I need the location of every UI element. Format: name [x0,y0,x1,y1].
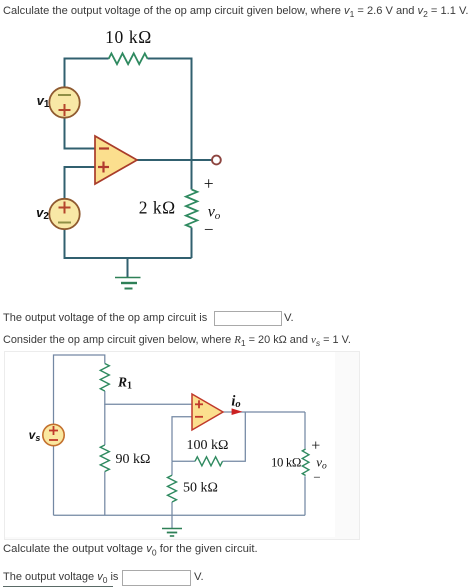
wire: 100k right to output vertical [223,412,246,461]
wire: c2 top rail [54,355,105,424]
wire: 90k top lead [104,404,106,445]
wire: v2 top to op-amp non-inverting input [65,167,96,199]
svg-text:90 kΩ: 90 kΩ [116,452,151,467]
svg-text:10 kΩ: 10 kΩ [105,27,152,47]
wire: node to 100k left [172,460,195,462]
answer input box 2 [122,570,191,586]
underline artifact under bottom text [3,586,113,587]
resistor 50 kOhm [168,475,177,502]
output terminal node [212,156,221,165]
wire: c1 top-right from 10k right, down right side to 2k top [148,59,192,190]
answer text line 1 [3,312,207,324]
wire: c1 top-left from v1 top to 10k left [65,59,109,88]
svg-text:100 kΩ: 100 kΩ [187,438,229,453]
wire: 10k bottom lead [304,476,306,515]
circuit 2 panel [4,351,360,540]
resistor 2 kOhm (load) [186,190,197,228]
problem text line 1 [3,5,468,17]
source v2 [49,199,79,229]
svg-text:−: − [313,470,320,485]
svg-text:+: + [204,173,214,193]
current arrow io [232,408,243,415]
wire: ground stem c1 [127,258,129,277]
wire: bottom rail [54,514,306,516]
svg-text:R1: R1 [117,374,132,391]
wire: 50k bottom lead [171,502,173,515]
op-amp U2 [192,394,223,430]
op-amp U1 [95,136,137,184]
svg-text:vs: vs [29,428,41,443]
resistor 90 kOhm [100,445,109,472]
resistor 10 kOhm (feedback) [109,53,148,64]
svg-text:−: − [204,220,214,239]
wire: op-amp output to terminal [137,159,212,161]
wire: ground stem c2 [171,515,173,528]
wire: right vertical to 10k [304,412,306,449]
svg-text:io: io [231,393,240,410]
svg-text:v1: v1 [37,93,50,110]
svg-text:50 kΩ: 50 kΩ [183,481,218,496]
source vs [43,424,64,445]
resistor 100 kOhm [195,457,223,466]
wire: 2k bottom lead to bottom rail [191,228,193,259]
answer input box 1 [214,311,282,326]
resistor R1 [100,364,109,392]
problem text line 2 [3,334,351,346]
svg-text:2 kΩ: 2 kΩ [139,198,176,218]
wire: op-amp inverting input loop down [172,417,192,462]
wire: op-amp output rail [223,411,305,413]
wire: 90k bottom lead [104,472,106,516]
source v1 [49,87,79,117]
wire: 50k top lead [171,461,173,475]
resistor 10 kOhm load [302,449,309,476]
wire: v2 bottom to bottom rail [65,229,192,258]
svg-text:10 kΩ: 10 kΩ [271,456,301,470]
ground c1 [115,278,141,289]
ground c2 [162,529,182,537]
svg-text:+: + [311,438,320,455]
svg-text:v2: v2 [36,205,49,222]
wire: v_s bottom to bottom rail [53,446,55,515]
question text bottom [3,543,258,555]
wire: v1 bottom to op-amp inverting input [65,118,96,149]
answer text line 2 [3,571,118,583]
wire: R1 bottom lead + node wire to op-amp + input [105,391,192,404]
